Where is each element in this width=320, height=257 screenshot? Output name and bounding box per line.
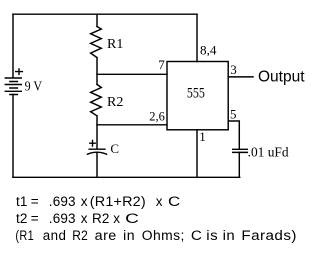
svg-text:Output: Output: [258, 68, 305, 85]
svg-text:8,4: 8,4: [200, 42, 217, 57]
svg-text:R2: R2: [107, 95, 123, 110]
svg-text:(R1andR2areinOhms;CisinFarads): (R1andR2areinOhms;CisinFarads): [15, 228, 297, 243]
svg-text:3: 3: [230, 62, 237, 77]
svg-text:555: 555: [187, 86, 205, 102]
svg-text:9 V: 9 V: [25, 80, 42, 95]
svg-text:2,6: 2,6: [149, 108, 165, 123]
svg-text:7: 7: [158, 57, 165, 72]
svg-text:5: 5: [230, 107, 237, 122]
svg-text:t2=.693xR2xC: t2=.693xR2xC: [16, 211, 139, 226]
svg-text:1: 1: [199, 129, 206, 144]
svg-text:R1: R1: [107, 37, 123, 52]
svg-text:.01 uFd: .01 uFd: [248, 146, 289, 161]
svg-text:C: C: [110, 141, 119, 156]
svg-text:t1=.693x(R1+R2)xC: t1=.693x(R1+R2)xC: [16, 194, 181, 209]
